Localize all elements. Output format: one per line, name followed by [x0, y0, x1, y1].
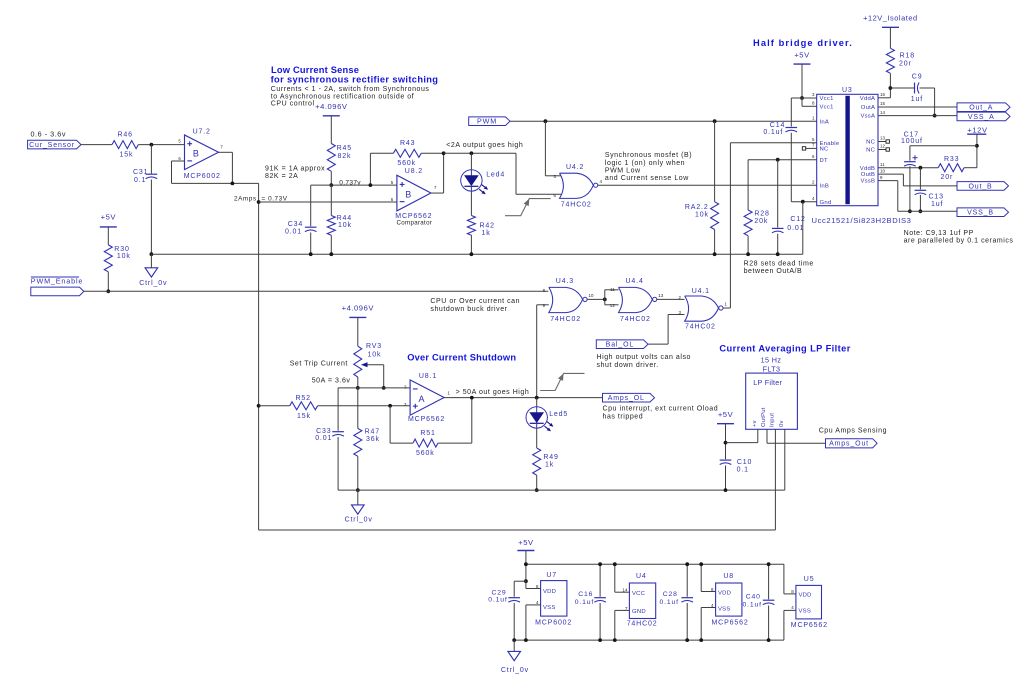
svg-text:NC: NC — [866, 148, 876, 154]
svg-text:C12: C12 — [790, 216, 805, 223]
svg-text:Ctrl_0v: Ctrl_0v — [139, 280, 167, 287]
svg-text:+12V_Isolated: +12V_Isolated — [863, 13, 918, 22]
svg-text:20k: 20k — [754, 218, 768, 225]
svg-text:Vcc1: Vcc1 — [820, 96, 834, 102]
svg-text:to Asynchronous rectification: to Asynchronous rectification outside of — [271, 93, 414, 100]
svg-text:91K = 1A approx: 91K = 1A approx — [265, 166, 325, 173]
svg-text:Vcc1: Vcc1 — [820, 104, 834, 110]
svg-text:Out_A: Out_A — [969, 105, 993, 112]
svg-text:20r: 20r — [899, 60, 912, 67]
svg-text:R46: R46 — [118, 131, 133, 138]
svg-text:A: A — [418, 394, 425, 404]
svg-text:VssA: VssA — [860, 114, 875, 120]
svg-text:U4.2: U4.2 — [566, 164, 584, 171]
svg-text:C33: C33 — [316, 428, 331, 435]
svg-text:> 50A out goes High: > 50A out goes High — [456, 389, 530, 396]
svg-text:C14: C14 — [770, 122, 785, 129]
svg-text:0.6 - 3.6v: 0.6 - 3.6v — [31, 130, 66, 139]
svg-text:+5V: +5V — [718, 410, 734, 419]
svg-text:0v: 0v — [779, 420, 785, 427]
svg-text:0.01: 0.01 — [285, 228, 302, 235]
svg-text:Cpu Amps Sensing: Cpu Amps Sensing — [819, 428, 887, 435]
svg-text:C40: C40 — [746, 594, 761, 601]
svg-text:+4.096V: +4.096V — [315, 102, 348, 111]
svg-text:Gnd: Gnd — [820, 200, 832, 206]
svg-text:R33: R33 — [944, 156, 959, 163]
svg-text:+5V: +5V — [101, 213, 117, 222]
svg-text:11: 11 — [610, 287, 615, 292]
svg-text:74HC02: 74HC02 — [685, 323, 716, 330]
svg-text:U7.2: U7.2 — [193, 129, 211, 136]
svg-text:0.01: 0.01 — [787, 225, 804, 232]
svg-text:560k: 560k — [397, 160, 416, 167]
svg-text:R28 sets dead time: R28 sets dead time — [744, 261, 814, 268]
svg-text:+v: +v — [752, 420, 758, 427]
svg-text:High output volts can also: High output volts can also — [597, 354, 691, 361]
svg-text:Current Averaging LP Filter: Current Averaging LP Filter — [719, 343, 850, 353]
svg-text:for synchronous rectifier swit: for synchronous rectifier switching — [271, 75, 439, 85]
svg-text:C13: C13 — [929, 194, 944, 201]
svg-text:Comparator: Comparator — [397, 219, 433, 226]
svg-text:Half bridge driver.: Half bridge driver. — [753, 38, 853, 48]
svg-text:Ucc21521/Si823H2BDIS3: Ucc21521/Si823H2BDIS3 — [812, 216, 912, 225]
svg-text:C28: C28 — [663, 591, 678, 598]
svg-text:74HC02: 74HC02 — [620, 316, 651, 323]
svg-text:R51: R51 — [420, 430, 435, 437]
svg-text:InA: InA — [820, 119, 830, 125]
svg-text:Input: Input — [769, 413, 775, 427]
svg-text:R49: R49 — [543, 454, 558, 461]
svg-text:74HC02: 74HC02 — [561, 201, 592, 208]
svg-text:C9: C9 — [912, 74, 923, 81]
svg-text:1k: 1k — [482, 230, 491, 237]
svg-text:10k: 10k — [338, 222, 352, 229]
svg-text:15k: 15k — [120, 152, 134, 159]
svg-text:0.1uf: 0.1uf — [763, 129, 783, 136]
svg-text:RA2.2: RA2.2 — [685, 204, 709, 211]
svg-text:MCP6562: MCP6562 — [791, 622, 828, 629]
svg-text:VCC: VCC — [632, 591, 646, 597]
svg-text:<2A output goes high: <2A output goes high — [446, 142, 523, 149]
svg-text:OutA: OutA — [861, 105, 875, 111]
svg-text:12: 12 — [880, 144, 886, 149]
svg-text:NC: NC — [866, 140, 876, 146]
svg-text:VSS: VSS — [799, 609, 812, 615]
svg-text:= 0.73V: = 0.73V — [262, 196, 288, 203]
svg-text:U4.3: U4.3 — [556, 278, 574, 285]
svg-text:C31: C31 — [133, 169, 148, 176]
svg-text:15: 15 — [880, 101, 886, 106]
svg-text:OutB: OutB — [861, 172, 875, 178]
svg-text:82k: 82k — [338, 153, 352, 160]
svg-text:C10: C10 — [737, 459, 752, 466]
svg-text:R42: R42 — [480, 223, 495, 230]
svg-text:U4: U4 — [636, 573, 647, 580]
svg-text:and Current sense Low: and Current sense Low — [605, 175, 689, 182]
svg-text:are paralleled by 0.1 ceramics: are paralleled by 0.1 ceramics — [904, 238, 1014, 245]
svg-text:R45: R45 — [337, 145, 352, 152]
svg-text:0.1uf: 0.1uf — [660, 599, 679, 606]
svg-text:OutPut: OutPut — [761, 407, 767, 427]
svg-text:NC: NC — [820, 147, 830, 153]
svg-text:36k: 36k — [366, 436, 380, 443]
svg-text:RV3: RV3 — [366, 343, 382, 350]
svg-text:10k: 10k — [695, 211, 709, 218]
svg-text:CPU control: CPU control — [271, 101, 315, 108]
svg-text:0.1uf: 0.1uf — [575, 599, 594, 606]
svg-text:Set Trip Current: Set Trip Current — [290, 361, 348, 368]
svg-text:R47: R47 — [365, 429, 380, 436]
svg-text:4: 4 — [791, 605, 794, 610]
svg-text:14: 14 — [880, 110, 886, 115]
svg-text:0.1uf: 0.1uf — [743, 602, 762, 609]
svg-text:74HC02: 74HC02 — [627, 620, 658, 627]
svg-text:13: 13 — [658, 293, 664, 298]
svg-text:C34: C34 — [288, 221, 303, 228]
svg-text:+5V: +5V — [518, 538, 534, 547]
svg-text:VSS: VSS — [543, 605, 556, 611]
svg-text:R28: R28 — [754, 211, 769, 218]
svg-text:13: 13 — [880, 136, 886, 141]
svg-text:10k: 10k — [117, 253, 131, 260]
svg-text:0.01: 0.01 — [315, 435, 332, 442]
svg-text:MCP6002: MCP6002 — [184, 173, 221, 180]
svg-text:1uf: 1uf — [911, 96, 923, 103]
svg-text:2Amps: 2Amps — [234, 196, 257, 203]
svg-text:Low Current Sense: Low Current Sense — [271, 65, 359, 75]
svg-text:between OutA/B: between OutA/B — [744, 268, 803, 275]
svg-text:10: 10 — [880, 168, 886, 173]
svg-text:MCP6562: MCP6562 — [408, 416, 445, 423]
svg-text:VSS_B: VSS_B — [967, 210, 994, 217]
svg-text:Synchronous mosfet (B): Synchronous mosfet (B) — [605, 152, 692, 159]
svg-text:U5: U5 — [804, 576, 815, 583]
svg-text:Cur_Sensor: Cur_Sensor — [29, 142, 75, 149]
svg-text:U4.4: U4.4 — [626, 278, 644, 285]
svg-text:74HC02: 74HC02 — [550, 316, 581, 323]
svg-text:R44: R44 — [337, 215, 352, 222]
svg-text:MCP6002: MCP6002 — [535, 620, 572, 627]
svg-text:Amps_Out: Amps_Out — [829, 441, 869, 448]
svg-text:Currents < 1 - 2A, switch from: Currents < 1 - 2A, switch from Synchrono… — [271, 86, 430, 93]
svg-text:InB: InB — [820, 183, 830, 189]
svg-text:B: B — [193, 149, 200, 159]
svg-text:FLT3: FLT3 — [763, 364, 781, 373]
svg-text:CPU or Over current can: CPU or Over current can — [430, 298, 520, 305]
svg-text:VSS_A: VSS_A — [968, 114, 995, 121]
svg-text:10: 10 — [589, 293, 595, 298]
svg-text:B: B — [405, 189, 412, 199]
svg-text:VDD: VDD — [543, 589, 556, 595]
svg-text:LP Filter: LP Filter — [753, 378, 782, 387]
svg-text:5: 5 — [391, 180, 394, 185]
svg-text:2: 2 — [679, 295, 682, 300]
svg-text:MCP6562: MCP6562 — [712, 620, 749, 627]
svg-text:U8.1: U8.1 — [419, 373, 437, 380]
svg-text:16: 16 — [880, 92, 886, 97]
svg-text:12: 12 — [610, 303, 616, 308]
svg-text:U8: U8 — [723, 573, 734, 580]
svg-text:Ctrl_0v: Ctrl_0v — [501, 667, 529, 674]
svg-text:C29: C29 — [492, 589, 507, 596]
svg-text:Amps_OL: Amps_OL — [608, 395, 645, 402]
svg-text:C16: C16 — [578, 591, 593, 598]
svg-text:R18: R18 — [900, 52, 915, 59]
svg-text:Out_B: Out_B — [968, 183, 992, 190]
svg-text:VddA: VddA — [860, 96, 875, 102]
svg-text:100uf: 100uf — [901, 138, 923, 145]
svg-text:R43: R43 — [400, 140, 415, 147]
svg-text:7: 7 — [220, 145, 223, 150]
svg-text:VssB: VssB — [860, 179, 875, 185]
svg-text:Led5: Led5 — [549, 411, 568, 418]
svg-text:Over Current Shutdown: Over Current Shutdown — [407, 353, 516, 363]
svg-text:U3: U3 — [842, 87, 853, 94]
svg-text:U4.1: U4.1 — [692, 288, 710, 295]
svg-text:15 Hz: 15 Hz — [761, 355, 782, 364]
svg-text:6: 6 — [391, 197, 394, 202]
svg-text:R52: R52 — [296, 395, 311, 402]
svg-text:PWM Low: PWM Low — [605, 168, 641, 175]
svg-text:1uf: 1uf — [931, 201, 943, 208]
svg-text:DT: DT — [820, 158, 829, 164]
svg-text:+12V: +12V — [967, 126, 988, 135]
svg-text:15k: 15k — [297, 413, 311, 420]
svg-text:6: 6 — [178, 156, 181, 161]
svg-text:11: 11 — [880, 162, 885, 167]
svg-text:50A = 3.6v: 50A = 3.6v — [312, 378, 351, 385]
svg-text:+4.096V: +4.096V — [342, 303, 375, 312]
svg-text:PWM_Enable: PWM_Enable — [31, 276, 83, 285]
svg-text:shutdown buck driver: shutdown buck driver — [430, 306, 507, 313]
svg-text:U8.2: U8.2 — [405, 168, 423, 175]
svg-text:shut down driver.: shut down driver. — [597, 362, 659, 369]
svg-text:Bal_OL: Bal_OL — [606, 342, 634, 349]
svg-text:has tripped: has tripped — [603, 414, 644, 421]
svg-text:20r: 20r — [941, 174, 954, 181]
svg-text:Cpu interrupt, ext current Olo: Cpu interrupt, ext current Oload — [603, 406, 719, 413]
svg-text:0.1: 0.1 — [134, 177, 146, 184]
svg-text:8: 8 — [791, 589, 794, 594]
svg-text:VddB: VddB — [860, 166, 875, 172]
svg-text:VDD: VDD — [799, 593, 812, 599]
svg-text:0.1: 0.1 — [737, 467, 749, 474]
svg-text:VDD: VDD — [718, 590, 731, 596]
svg-text:5: 5 — [178, 139, 181, 144]
svg-text:0.1uf: 0.1uf — [488, 597, 507, 604]
svg-text:PWM: PWM — [477, 117, 497, 126]
svg-text:14: 14 — [622, 588, 628, 593]
svg-text:+5V: +5V — [794, 50, 810, 59]
svg-text:Led4: Led4 — [486, 171, 505, 178]
svg-text:VSS: VSS — [718, 606, 731, 612]
svg-text:82K = 2A: 82K = 2A — [265, 173, 298, 180]
svg-text:Ctrl_0v: Ctrl_0v — [345, 517, 373, 524]
svg-text:0.737v: 0.737v — [339, 179, 361, 186]
svg-text:logic 1 (on) only when: logic 1 (on) only when — [605, 160, 685, 167]
svg-text:560k: 560k — [416, 450, 435, 457]
svg-text:GND: GND — [632, 609, 646, 615]
svg-text:Note: C9,13 1uf PP: Note: C9,13 1uf PP — [904, 230, 974, 237]
svg-text:10k: 10k — [368, 351, 382, 358]
svg-text:U7: U7 — [546, 572, 557, 579]
svg-text:1k: 1k — [545, 461, 554, 468]
